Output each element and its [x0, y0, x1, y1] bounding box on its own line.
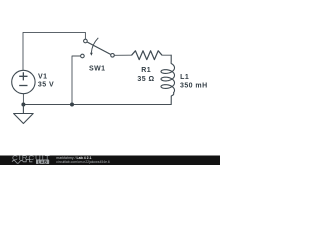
wire top — [23, 32, 85, 70]
watermark logo LAB chip — [36, 160, 49, 165]
switch SW1 arm — [87, 42, 111, 54]
watermark logo wave — [12, 159, 32, 163]
svg-text:35 V: 35 V — [38, 82, 54, 89]
svg-text:35 Ω: 35 Ω — [137, 76, 154, 83]
svg-text:SW1: SW1 — [89, 66, 106, 73]
switch SW1 arrowhead — [90, 53, 93, 56]
wire resistor to inductor corner — [162, 54, 171, 56]
svg-text:350 mH: 350 mH — [180, 82, 208, 89]
switch SW1 right terminal circle — [111, 54, 115, 58]
svg-text:LAB: LAB — [38, 159, 48, 164]
wire bottom rail — [23, 104, 171, 106]
switch SW1 lower throw circle — [81, 54, 85, 58]
svg-text:V1: V1 — [38, 73, 47, 80]
watermark bar — [0, 156, 220, 166]
resistor R1 — [132, 51, 162, 60]
svg-text:L1: L1 — [180, 74, 189, 81]
wire V1 bottom to rail — [22, 94, 24, 105]
svg-text:circuitlab.com/cm.n22jakows454: circuitlab.com/cm.n22jakows454e.6 — [56, 160, 110, 164]
ground — [14, 105, 34, 124]
wire switch lower throw to rail — [72, 56, 81, 105]
switch SW1 actuator arrow — [91, 38, 98, 53]
wire switch right terminal to resistor — [115, 54, 132, 56]
voltage source V1 — [12, 70, 35, 93]
node junction V1-rail — [21, 103, 25, 107]
node junction switch-rail — [70, 103, 74, 107]
svg-text:R1: R1 — [141, 67, 151, 74]
switch SW1 pole circle — [81, 38, 115, 58]
inductor L1 — [161, 55, 175, 104]
